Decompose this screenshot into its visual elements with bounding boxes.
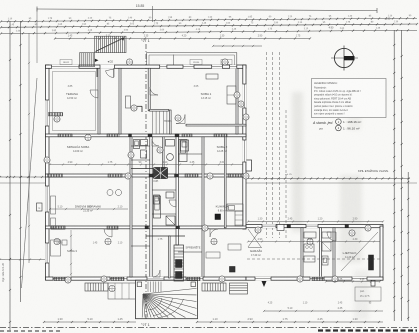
terrace inner edge <box>53 72 96 131</box>
door-window reference tags <box>126 59 132 65</box>
basin lower <box>166 192 174 198</box>
annex dashed ceiling line <box>247 258 380 260</box>
door arc mid room <box>150 87 158 95</box>
window bottom wall 1 <box>53 277 71 281</box>
mid-right dashed vertical 3 <box>279 52 281 238</box>
window annex bottom 1 <box>255 277 271 281</box>
interior wall vertical x99 <box>98 68 100 134</box>
left margin dimension line B <box>20 21 22 302</box>
boiler circle <box>167 154 174 161</box>
small furniture room2 <box>206 74 218 79</box>
door opening top wall <box>100 65 115 69</box>
radiator hatch y134 c <box>214 134 227 137</box>
window right wall 2 <box>243 140 247 162</box>
door swing ljetna <box>341 232 378 271</box>
long wall line y177 beyond building left <box>0 176 45 178</box>
fixture annex c <box>322 242 331 251</box>
annex steps <box>230 283 248 294</box>
window top wall b <box>160 65 167 69</box>
wc fixture 2 <box>141 140 148 146</box>
bed soba3 <box>51 240 61 256</box>
window left wall 3 <box>45 243 49 263</box>
dimension line top overall 15.85 <box>37 9 377 11</box>
window top wall e <box>230 65 237 69</box>
radiator hatch wall y174 mid <box>228 174 243 177</box>
interior wall vertical x120 <box>119 68 121 134</box>
door arc hall top <box>106 69 114 78</box>
door arc core 1 <box>152 139 159 146</box>
interior wall vertical x237 <box>236 68 238 134</box>
window bottom wall 2 <box>110 277 127 281</box>
dimension line y259 left margin <box>0 259 45 261</box>
small chimney box annex top <box>277 225 284 231</box>
dark fixture core b <box>141 150 147 158</box>
left margin dimension line C <box>28 33 30 263</box>
wardrobe right room <box>227 86 236 104</box>
fan staircase bay <box>136 280 198 319</box>
kitchen sink <box>229 206 235 211</box>
porch column below annex <box>371 281 375 287</box>
radiator hatch wall y174 b <box>108 174 122 177</box>
window annex top 2 <box>306 224 318 228</box>
interior wall vertical x149 upper <box>148 68 150 111</box>
balcony parapet drop <box>173 55 175 66</box>
annex interior wall x320 <box>320 228 322 277</box>
landing hatch below centre door <box>147 282 149 293</box>
dark jamb y134 c <box>129 134 132 137</box>
door arc lower left <box>104 229 112 237</box>
dimension string row 3 <box>0 21 418 28</box>
interior wall vertical x225 lower <box>224 137 226 228</box>
core partition y154 right <box>178 153 202 155</box>
wc annex <box>322 256 328 265</box>
bottom dimension row left <box>44 321 136 323</box>
bottom right scale bar <box>318 329 417 331</box>
right margin dimension line B <box>401 30 403 321</box>
core partition y146 <box>131 145 150 147</box>
dim numbers row y218 annex <box>248 221 383 223</box>
short dim row above balcony <box>213 45 262 47</box>
wc fixture lower 1 <box>154 195 160 204</box>
radiator hatch y134 a <box>58 134 72 137</box>
door arc bottom centre <box>153 270 160 277</box>
dimension string row 4 <box>0 27 417 34</box>
corridor wall y125 <box>186 124 246 126</box>
left margin dimension line A <box>9 21 11 330</box>
annex interior wall x334 <box>333 228 335 277</box>
porch slab left of stair <box>108 283 136 299</box>
bottom dimension row right <box>197 321 383 323</box>
annex wall bottom <box>246 277 383 280</box>
partition y110 upper <box>150 109 169 111</box>
mid-right dashed vertical 4 <box>285 110 287 238</box>
vestibule walls <box>96 68 98 77</box>
window top wall right <box>212 65 223 69</box>
radiator hatch bottom wall 1 <box>54 277 68 280</box>
vertical dim ticks x71 <box>70 230 72 276</box>
window annex bottom 2 <box>310 277 324 281</box>
section line P-T1 <box>145 44 147 320</box>
core partition y190 <box>152 189 176 191</box>
bath tub <box>179 140 187 162</box>
radiator hatch bottom wall 3 <box>187 277 200 280</box>
lower partition y252 right <box>178 251 202 253</box>
window top wall mid <box>183 65 194 69</box>
interior wall vertical x203 lower <box>202 137 204 277</box>
dark jamb y134 a <box>148 134 152 137</box>
long wall line y177 beyond building right <box>246 178 410 180</box>
radiator hatch wall y174 left <box>48 174 63 177</box>
exterior wall left <box>46 65 50 280</box>
window label box b <box>221 60 232 65</box>
dark jamb y226 b <box>176 226 180 229</box>
exterior wall bottom main <box>46 277 247 280</box>
exterior wall right upper <box>243 65 246 229</box>
window annex top 1 <box>262 224 276 228</box>
left corner vertical tick <box>36 8 38 63</box>
dimension string row 2 <box>0 15 417 22</box>
annex jamb a <box>287 225 291 228</box>
window annex bottom 3 <box>352 277 367 281</box>
scan smudge right-middle <box>152 60 369 320</box>
door arc annex <box>327 232 336 241</box>
partial wall y168 core <box>131 168 153 170</box>
chimney flue block <box>154 168 168 179</box>
window label box a <box>190 60 202 65</box>
sofa dnevni <box>51 196 56 214</box>
fixture annex stove <box>304 244 314 252</box>
small furniture upper mid <box>126 96 131 108</box>
door arc lower right <box>210 229 218 237</box>
fixture annex sink <box>304 232 316 238</box>
furniture bottom right room <box>206 252 220 258</box>
window right wall 1 <box>243 84 247 108</box>
exterior wall top <box>46 65 247 68</box>
dark blob left of annex <box>230 267 236 273</box>
annex jamb b <box>345 225 349 228</box>
annex wall top <box>246 225 383 228</box>
bottom dash-dot line <box>0 327 417 329</box>
balcony parapet top <box>147 52 237 54</box>
dark fixture core a <box>181 140 189 151</box>
window bottom wall 3 <box>186 277 203 281</box>
north arrow <box>334 48 353 67</box>
dim row below annex right <box>326 281 380 283</box>
notes box <box>312 79 387 118</box>
radiator hatch wall y174 c <box>185 174 198 177</box>
small stair treads mid <box>152 112 154 134</box>
core partition y246 <box>131 245 150 247</box>
right wall pilaster bump <box>246 160 252 171</box>
dark jamb y174 b <box>175 174 179 177</box>
ramp diagonal line <box>22 78 38 288</box>
radiator hatch wall y226 mid <box>107 226 118 229</box>
annex wall right <box>380 226 383 280</box>
tub lower <box>154 196 161 218</box>
dim numbers row y207 <box>50 208 128 210</box>
entry steps bottom mid <box>202 283 226 291</box>
door gap bottom wall centre <box>147 277 164 281</box>
door arc room1 <box>90 90 98 98</box>
mid-right dashed vertical 1 <box>266 52 268 238</box>
radiator hatch wall y114 left <box>49 113 63 116</box>
radiator hatch y134 d <box>182 134 192 137</box>
entrance stair upper flight <box>95 36 127 53</box>
black triangle symbol <box>262 281 267 287</box>
wc fixture 1 <box>134 140 140 149</box>
interior wall vertical x131 lower <box>130 137 132 277</box>
dim numbers row y240 <box>248 241 380 243</box>
fan stair dim small <box>355 287 381 301</box>
door arc core 2 <box>169 200 176 207</box>
garage door swing <box>248 229 261 247</box>
basin fixture <box>166 140 175 147</box>
small box left margin <box>37 203 43 211</box>
core partition y160 <box>131 159 150 161</box>
shower lower <box>166 216 175 225</box>
interior wall mid y134 <box>46 134 247 137</box>
partition x170 upper <box>169 110 171 134</box>
lower core partial wall y236 <box>146 235 185 237</box>
fixture annex d <box>304 256 315 262</box>
hall L-wall <box>137 105 142 107</box>
dimension string row 5 partial <box>55 38 310 40</box>
interior wall vertical x177 core <box>176 137 178 245</box>
door arc right room top <box>176 115 185 124</box>
window top wall left <box>52 65 80 69</box>
dark jamb y174 a <box>149 174 153 177</box>
entrance stair lower flight <box>80 53 95 67</box>
table circles dnevni <box>107 190 113 196</box>
window left wall 2 <box>45 186 49 212</box>
window label box c <box>60 60 72 65</box>
kitchen counter right <box>227 204 243 211</box>
dim numbers row y162 <box>50 164 243 166</box>
interior wall y174 <box>46 174 247 177</box>
core partition y214 <box>152 213 176 215</box>
radiator hatch y134 b <box>107 134 119 137</box>
interior wall y226 main <box>46 226 247 229</box>
right margin dimension line C <box>407 172 409 321</box>
lower core wall x169 <box>169 236 171 278</box>
window left wall 1 <box>45 100 49 126</box>
entry steps bottom left <box>85 283 108 291</box>
radiator hatch bottom wall 2 <box>111 277 124 280</box>
dark jamb y226 a <box>145 226 149 229</box>
radiator hatch wall y226 left <box>51 226 65 229</box>
right margin dimension line A <box>393 30 395 321</box>
radiator hatch annex bottom <box>312 277 324 280</box>
dark jamb annex right room <box>369 255 374 270</box>
bottom second row <box>264 310 383 312</box>
annex interior wall x302 <box>301 228 303 277</box>
kitchen stove black <box>215 214 221 220</box>
dark jamb y134 b <box>175 134 179 137</box>
shaft ladder stair <box>174 245 184 281</box>
mid-right dashed vertical 2 <box>272 52 274 238</box>
interior wall vertical x163 core <box>163 137 165 174</box>
interior wall vertical x151 core <box>150 137 152 277</box>
